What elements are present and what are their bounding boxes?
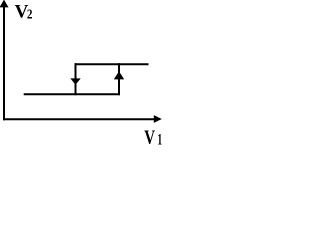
- vertical axis V2 (shaft): [3, 7, 5, 121]
- svg-text:1: 1: [157, 132, 162, 146]
- hysteresis lower level line: [24, 93, 120, 95]
- hysteresis upper level line: [75, 63, 149, 65]
- horizontal axis V1 (shaft): [3, 118, 155, 120]
- left vertical transition (falling): [75, 63, 77, 95]
- svg-text:V: V: [144, 127, 155, 145]
- horizontal axis arrowhead: [154, 115, 162, 123]
- down arrowhead on left transition: [70, 78, 80, 84]
- vertical axis arrowhead: [0, 0, 9, 7]
- svg-text:2: 2: [27, 7, 33, 22]
- right vertical transition (rising): [118, 63, 120, 95]
- up arrowhead on right transition: [114, 71, 124, 79]
